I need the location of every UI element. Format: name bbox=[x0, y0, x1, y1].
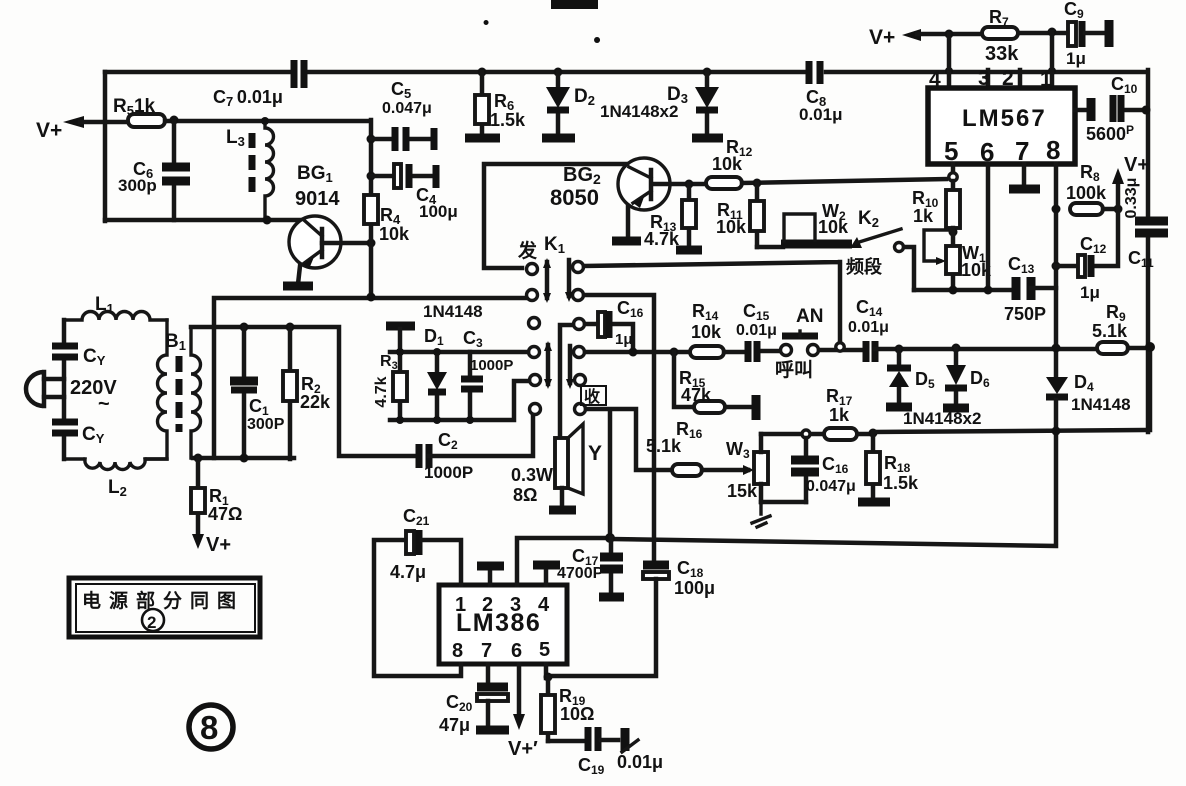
capacitor C15 bbox=[724, 351, 780, 352]
ground pin4 bbox=[544, 568, 549, 585]
capacitor C4 bbox=[371, 174, 432, 179]
node C16b top bbox=[802, 430, 810, 438]
capacitor C12 bbox=[1056, 209, 1118, 266]
svg-text:V+: V+ bbox=[206, 534, 231, 556]
resistor R10 bbox=[951, 181, 956, 190]
node R17/R18 junction bbox=[869, 429, 878, 438]
node C4 junction bbox=[367, 172, 376, 181]
wire pin1 column bbox=[1050, 32, 1055, 88]
svg-text:发: 发 bbox=[517, 239, 538, 262]
capacitor CY upper bbox=[52, 346, 78, 357]
wire K1 row6 fork bbox=[586, 409, 672, 538]
node pin8/R8 bbox=[1052, 205, 1061, 214]
svg-text:频段: 频段 bbox=[846, 256, 883, 277]
node V+ terminal left bbox=[63, 116, 84, 128]
op-amp U1 LM567 bbox=[928, 88, 1075, 164]
capacitor C21 bbox=[406, 531, 414, 554]
svg-text:3: 3 bbox=[510, 594, 521, 616]
capacitor C16a 1u bbox=[585, 324, 633, 349]
wire top-left box left edge bbox=[103, 72, 108, 221]
svg-text:1: 1 bbox=[455, 594, 466, 616]
svg-text:9014: 9014 bbox=[295, 188, 340, 210]
resistor R16 bbox=[672, 464, 702, 476]
node C16a junction bbox=[629, 348, 638, 357]
svg-text:10k: 10k bbox=[818, 217, 849, 237]
node network rail joints bbox=[396, 348, 404, 356]
svg-text:1: 1 bbox=[1040, 68, 1052, 91]
svg-text:8050: 8050 bbox=[550, 185, 599, 210]
svg-text:10k: 10k bbox=[712, 154, 743, 174]
wire BG2 base to R12 bbox=[653, 182, 706, 187]
svg-text:呼叫: 呼叫 bbox=[775, 359, 813, 381]
svg-text:5.1k: 5.1k bbox=[646, 436, 682, 456]
resistor R2 bbox=[288, 327, 293, 459]
svg-text:7: 7 bbox=[481, 640, 492, 662]
wire pin8 column bbox=[1054, 164, 1059, 376]
wire BG2 emitter bbox=[626, 206, 631, 238]
svg-text:V+: V+ bbox=[1124, 154, 1149, 176]
resistor R13 bbox=[687, 184, 692, 247]
capacitor C7 bbox=[294, 60, 304, 88]
svg-text:5: 5 bbox=[539, 639, 550, 661]
svg-text:0.047μ: 0.047μ bbox=[806, 478, 856, 495]
svg-text:收: 收 bbox=[584, 387, 600, 406]
wire K1 row2 down to C18 bbox=[584, 295, 654, 561]
capacitor C14 bbox=[866, 341, 875, 362]
node V+ output arrow down bbox=[192, 534, 204, 549]
diode D6 bbox=[954, 348, 959, 404]
transistor BG1 9014 bbox=[289, 163, 371, 284]
svg-text:4.7k: 4.7k bbox=[373, 376, 390, 407]
capacitor C19 bbox=[548, 739, 583, 744]
svg-text:1N4148x2: 1N4148x2 bbox=[903, 409, 981, 428]
wire y297 line to K1 bbox=[214, 298, 527, 458]
svg-text:0.33μ: 0.33μ bbox=[1123, 178, 1140, 219]
wire D1 network bottom rail bbox=[390, 381, 529, 420]
ground BG2 emitter bbox=[612, 237, 641, 246]
diode D5 bbox=[897, 349, 902, 403]
node D4 bottom bbox=[1052, 427, 1061, 436]
wire pin7 stub bbox=[1022, 164, 1027, 186]
capacitor C10 bbox=[1075, 108, 1146, 113]
node bus pin4 crossing bbox=[945, 67, 953, 75]
capacitor C8 bbox=[809, 61, 820, 84]
wire secondary bottom rail bbox=[193, 456, 294, 461]
wire mains left column bbox=[62, 320, 67, 459]
resistor R8 bbox=[1070, 203, 1103, 215]
svg-text:100μ: 100μ bbox=[674, 578, 715, 598]
svg-text:8: 8 bbox=[200, 709, 218, 746]
svg-text:10k: 10k bbox=[691, 322, 722, 342]
wire R12 to LM567 pin5 bbox=[742, 179, 946, 183]
wire pin6 column bbox=[986, 164, 991, 290]
svg-text:0.01μ: 0.01μ bbox=[617, 752, 663, 772]
op-amp U2 LM386 bbox=[439, 585, 567, 664]
diode D4 bbox=[1046, 377, 1068, 394]
node R8/V+ bbox=[1114, 205, 1123, 214]
transformer B1 primary winding bbox=[146, 320, 167, 459]
svg-text:220V: 220V bbox=[70, 377, 117, 399]
potentiometer W2 bbox=[781, 240, 852, 249]
wire oscillator bottom rail bbox=[105, 218, 303, 223]
node BG1 base junction bbox=[367, 239, 376, 248]
capacitor C13 bbox=[1016, 277, 1031, 300]
resistor R19 bbox=[546, 677, 551, 741]
diode D1 bbox=[435, 352, 440, 420]
node K1 row1 wire joins bbox=[836, 343, 844, 351]
wire K2 to W1 bottom rail bbox=[904, 247, 914, 290]
node bus/R6 junction bbox=[478, 68, 487, 77]
node L3 top junction bbox=[261, 117, 269, 125]
svg-text:6: 6 bbox=[511, 640, 522, 662]
svg-text:LM567: LM567 bbox=[962, 105, 1047, 132]
svg-text:1N4148: 1N4148 bbox=[1071, 395, 1131, 414]
svg-text:5: 5 bbox=[944, 136, 958, 166]
svg-text:2: 2 bbox=[1002, 67, 1014, 90]
svg-text:47μ: 47μ bbox=[439, 715, 470, 735]
capacitor C20 bbox=[477, 683, 508, 692]
wire W1 bottom rail to C13 bbox=[914, 288, 1012, 293]
label circled 8 bbox=[189, 705, 233, 749]
node R1 rail junction bbox=[194, 454, 203, 463]
wire V+ R7 line bbox=[917, 33, 1068, 34]
svg-text:8Ω: 8Ω bbox=[513, 485, 537, 505]
switch K1 right contacts bbox=[573, 262, 584, 273]
svg-text:300p: 300p bbox=[118, 176, 157, 195]
resistor R5 bbox=[128, 114, 165, 127]
resistor R11 bbox=[755, 183, 760, 247]
ground pin2 bbox=[488, 569, 493, 585]
node R9 right bbox=[1145, 342, 1155, 352]
resistor R4 bbox=[364, 195, 378, 224]
wire K1 row3 to speaker bbox=[560, 325, 573, 438]
svg-text:100μ: 100μ bbox=[419, 202, 458, 221]
svg-text:1μ: 1μ bbox=[1066, 49, 1086, 68]
svg-text:1μ: 1μ bbox=[1080, 283, 1100, 302]
svg-text:33k: 33k bbox=[985, 43, 1019, 65]
svg-text:1k: 1k bbox=[913, 206, 934, 226]
resistor R15 bbox=[674, 352, 753, 407]
node audio junction bbox=[605, 533, 615, 543]
svg-text:0.01μ: 0.01μ bbox=[799, 105, 843, 124]
resistor R18 bbox=[871, 433, 876, 498]
node pin4 top junction bbox=[945, 30, 954, 39]
capacitor C3 bbox=[468, 352, 473, 420]
wire signal line K1 row4 to R14 bbox=[585, 350, 690, 355]
svg-text:5.1k: 5.1k bbox=[1092, 321, 1128, 341]
svg-text:2: 2 bbox=[147, 613, 156, 632]
wire BG2 collector to K1 bbox=[484, 164, 627, 268]
svg-text:0.047μ: 0.047μ bbox=[382, 100, 432, 117]
svg-text:1μ: 1μ bbox=[615, 331, 633, 348]
node junction R5/C6 bbox=[170, 116, 179, 125]
svg-text:8: 8 bbox=[452, 640, 463, 662]
wire detector rail right bbox=[873, 347, 1150, 432]
node pin8/signal crossing bbox=[1052, 344, 1061, 353]
svg-text:1.5k: 1.5k bbox=[883, 473, 919, 493]
capacitor C1 bbox=[242, 327, 247, 458]
capacitor C6 bbox=[172, 122, 177, 220]
svg-text:Y: Y bbox=[588, 442, 602, 465]
svg-text:15k: 15k bbox=[727, 481, 758, 501]
capacitor C5 bbox=[371, 137, 430, 142]
svg-text:3: 3 bbox=[978, 67, 990, 90]
AC plug bbox=[26, 372, 44, 406]
wire W3 bottom to C16b bbox=[761, 500, 806, 505]
inductor L2 bbox=[64, 459, 167, 470]
svg-text:8: 8 bbox=[1046, 135, 1060, 165]
svg-text:C7 0.01μ: C7 0.01μ bbox=[213, 87, 283, 109]
inductor L3 bbox=[265, 121, 273, 220]
svg-text:AN: AN bbox=[796, 306, 823, 327]
ground pin7 bbox=[1009, 185, 1040, 194]
ground D1 network bbox=[386, 322, 415, 331]
capacitor C9 bbox=[1068, 22, 1076, 46]
resistor R6 bbox=[480, 72, 485, 136]
svg-text:47Ω: 47Ω bbox=[208, 504, 242, 524]
capacitor C18 bbox=[643, 561, 669, 570]
svg-text:1000P: 1000P bbox=[470, 357, 513, 374]
node pin5/R19 bbox=[544, 673, 553, 682]
stray scan mark top bbox=[551, 0, 598, 9]
wire K1 row1 to C14 node bbox=[584, 262, 840, 341]
wire pin6 V+ bbox=[517, 664, 522, 716]
svg-text:R51k: R51k bbox=[113, 96, 156, 118]
diode D3 bbox=[705, 72, 710, 134]
node pin6 bottom bbox=[984, 286, 993, 295]
wire secondary top rail bbox=[191, 327, 417, 456]
switch K1 lower pole arrows bbox=[546, 345, 551, 384]
potentiometer W3 bbox=[754, 452, 768, 484]
resistor R1 bbox=[196, 458, 201, 537]
svg-text:100k: 100k bbox=[1066, 183, 1107, 203]
node C5 junction bbox=[367, 135, 376, 144]
svg-text:2: 2 bbox=[482, 594, 493, 616]
diode D2 bbox=[556, 72, 561, 134]
svg-text:4.7μ: 4.7μ bbox=[390, 562, 426, 582]
svg-text:10Ω: 10Ω bbox=[560, 704, 594, 724]
capacitor C17 bbox=[609, 538, 614, 592]
wire pin3 stub bbox=[986, 70, 991, 88]
svg-text:750P: 750P bbox=[1004, 304, 1046, 324]
svg-text:~: ~ bbox=[98, 393, 110, 415]
svg-text:47k: 47k bbox=[681, 385, 712, 405]
node R14/R15 junction bbox=[670, 348, 679, 357]
switch K1 left contacts bbox=[527, 264, 538, 275]
label receive bbox=[581, 386, 606, 405]
wire R17 C16 rail bbox=[761, 432, 873, 437]
node V+ arrow up right bbox=[1116, 182, 1121, 209]
node pin1 top junction bbox=[1048, 28, 1057, 37]
node C1 top bbox=[240, 323, 249, 332]
ground W3 hatched bbox=[752, 502, 770, 527]
transformer B1 core bbox=[176, 356, 183, 432]
switch K1 upper pole arrows bbox=[545, 262, 550, 298]
capacitor C11 bbox=[1135, 221, 1168, 233]
label power-section box bbox=[69, 578, 260, 637]
svg-text:V+′: V+′ bbox=[508, 738, 538, 760]
svg-text:4: 4 bbox=[538, 594, 550, 616]
svg-text:V+: V+ bbox=[36, 119, 62, 142]
potentiometer W1 bbox=[951, 228, 956, 290]
node R12/R11 bbox=[753, 179, 762, 188]
svg-text:4.7k: 4.7k bbox=[644, 229, 680, 249]
svg-text:10k: 10k bbox=[716, 217, 747, 237]
svg-text:1.5k: 1.5k bbox=[490, 110, 526, 130]
svg-text:4: 4 bbox=[929, 68, 941, 91]
svg-text:0.01μ: 0.01μ bbox=[736, 322, 777, 339]
push button AN bbox=[781, 345, 792, 356]
pin 5 node circle bbox=[951, 164, 956, 173]
node D6 top bbox=[952, 344, 961, 353]
svg-text:1N4148: 1N4148 bbox=[423, 302, 483, 321]
node pin8/C12 bbox=[1052, 262, 1061, 271]
svg-text:1000P: 1000P bbox=[424, 463, 473, 482]
node R2 top bbox=[286, 323, 295, 332]
capacitor CY lower bbox=[52, 422, 78, 433]
resistor R17 bbox=[824, 428, 857, 440]
resistor R12 bbox=[706, 177, 742, 189]
node R10/W1 junction bbox=[949, 228, 958, 237]
wire top supply bus bbox=[105, 70, 1148, 432]
svg-text:电源部分同图: 电源部分同图 bbox=[82, 589, 244, 612]
svg-text:7: 7 bbox=[1015, 136, 1029, 166]
svg-text:10k: 10k bbox=[379, 224, 410, 244]
node W1 bottom bbox=[949, 286, 958, 295]
ground R18 bbox=[858, 498, 890, 507]
node C10 right bbox=[1142, 106, 1151, 115]
node bus/D2 junction bbox=[554, 68, 563, 77]
ground BG1 emitter bbox=[283, 282, 313, 291]
node y297/R4 junction bbox=[367, 293, 376, 302]
svg-text:22k: 22k bbox=[300, 392, 331, 412]
svg-text:LM386: LM386 bbox=[456, 609, 541, 637]
resistor R9 bbox=[1097, 342, 1128, 354]
svg-text:1k: 1k bbox=[829, 405, 850, 425]
wire pin2 stub bbox=[1018, 70, 1023, 88]
wire R5 to C5 column bbox=[165, 120, 371, 195]
ground R13 bbox=[676, 246, 702, 255]
wire pin3 input bbox=[517, 538, 610, 585]
speaker Y bbox=[511, 424, 602, 507]
svg-text:300P: 300P bbox=[247, 416, 285, 433]
svg-text:4700P: 4700P bbox=[557, 565, 604, 582]
node L3 bottom junction bbox=[263, 216, 272, 225]
ground R6 bbox=[465, 134, 500, 143]
wire D1 network top rail bbox=[390, 350, 528, 355]
inductor L1 bbox=[64, 312, 167, 321]
node V+ terminal top right bbox=[902, 29, 921, 41]
resistor R7 bbox=[982, 27, 1018, 39]
capacitor C16b bbox=[804, 438, 809, 502]
wire pin4 column bbox=[947, 34, 952, 88]
switch K2 bbox=[850, 237, 862, 248]
resistor R14 bbox=[690, 346, 724, 358]
node D5 top bbox=[895, 345, 904, 354]
svg-text:V+: V+ bbox=[869, 26, 895, 49]
wire AN to C14 bbox=[819, 348, 862, 353]
transistor BG2 8050 bbox=[550, 158, 670, 210]
wire R4 column to y297 line bbox=[369, 224, 374, 297]
ground D3 bbox=[692, 134, 723, 143]
ground D2 bbox=[542, 134, 575, 143]
wire W2 bottom rail bbox=[757, 245, 783, 250]
transformer B1 secondary winding bbox=[191, 327, 201, 458]
svg-text:0.3W: 0.3W bbox=[511, 465, 553, 485]
wire pin5 stub bbox=[544, 664, 549, 678]
node BG2 base/R13 bbox=[685, 180, 694, 189]
node bus/D3 junction bbox=[703, 68, 712, 77]
ground speaker bbox=[549, 506, 576, 515]
wire pin7 stub bbox=[486, 664, 491, 684]
svg-text:0.01μ: 0.01μ bbox=[848, 319, 889, 336]
capacitor C2 bbox=[419, 444, 429, 468]
resistor R3 bbox=[398, 352, 403, 420]
wire pin8 loop bbox=[374, 540, 461, 676]
